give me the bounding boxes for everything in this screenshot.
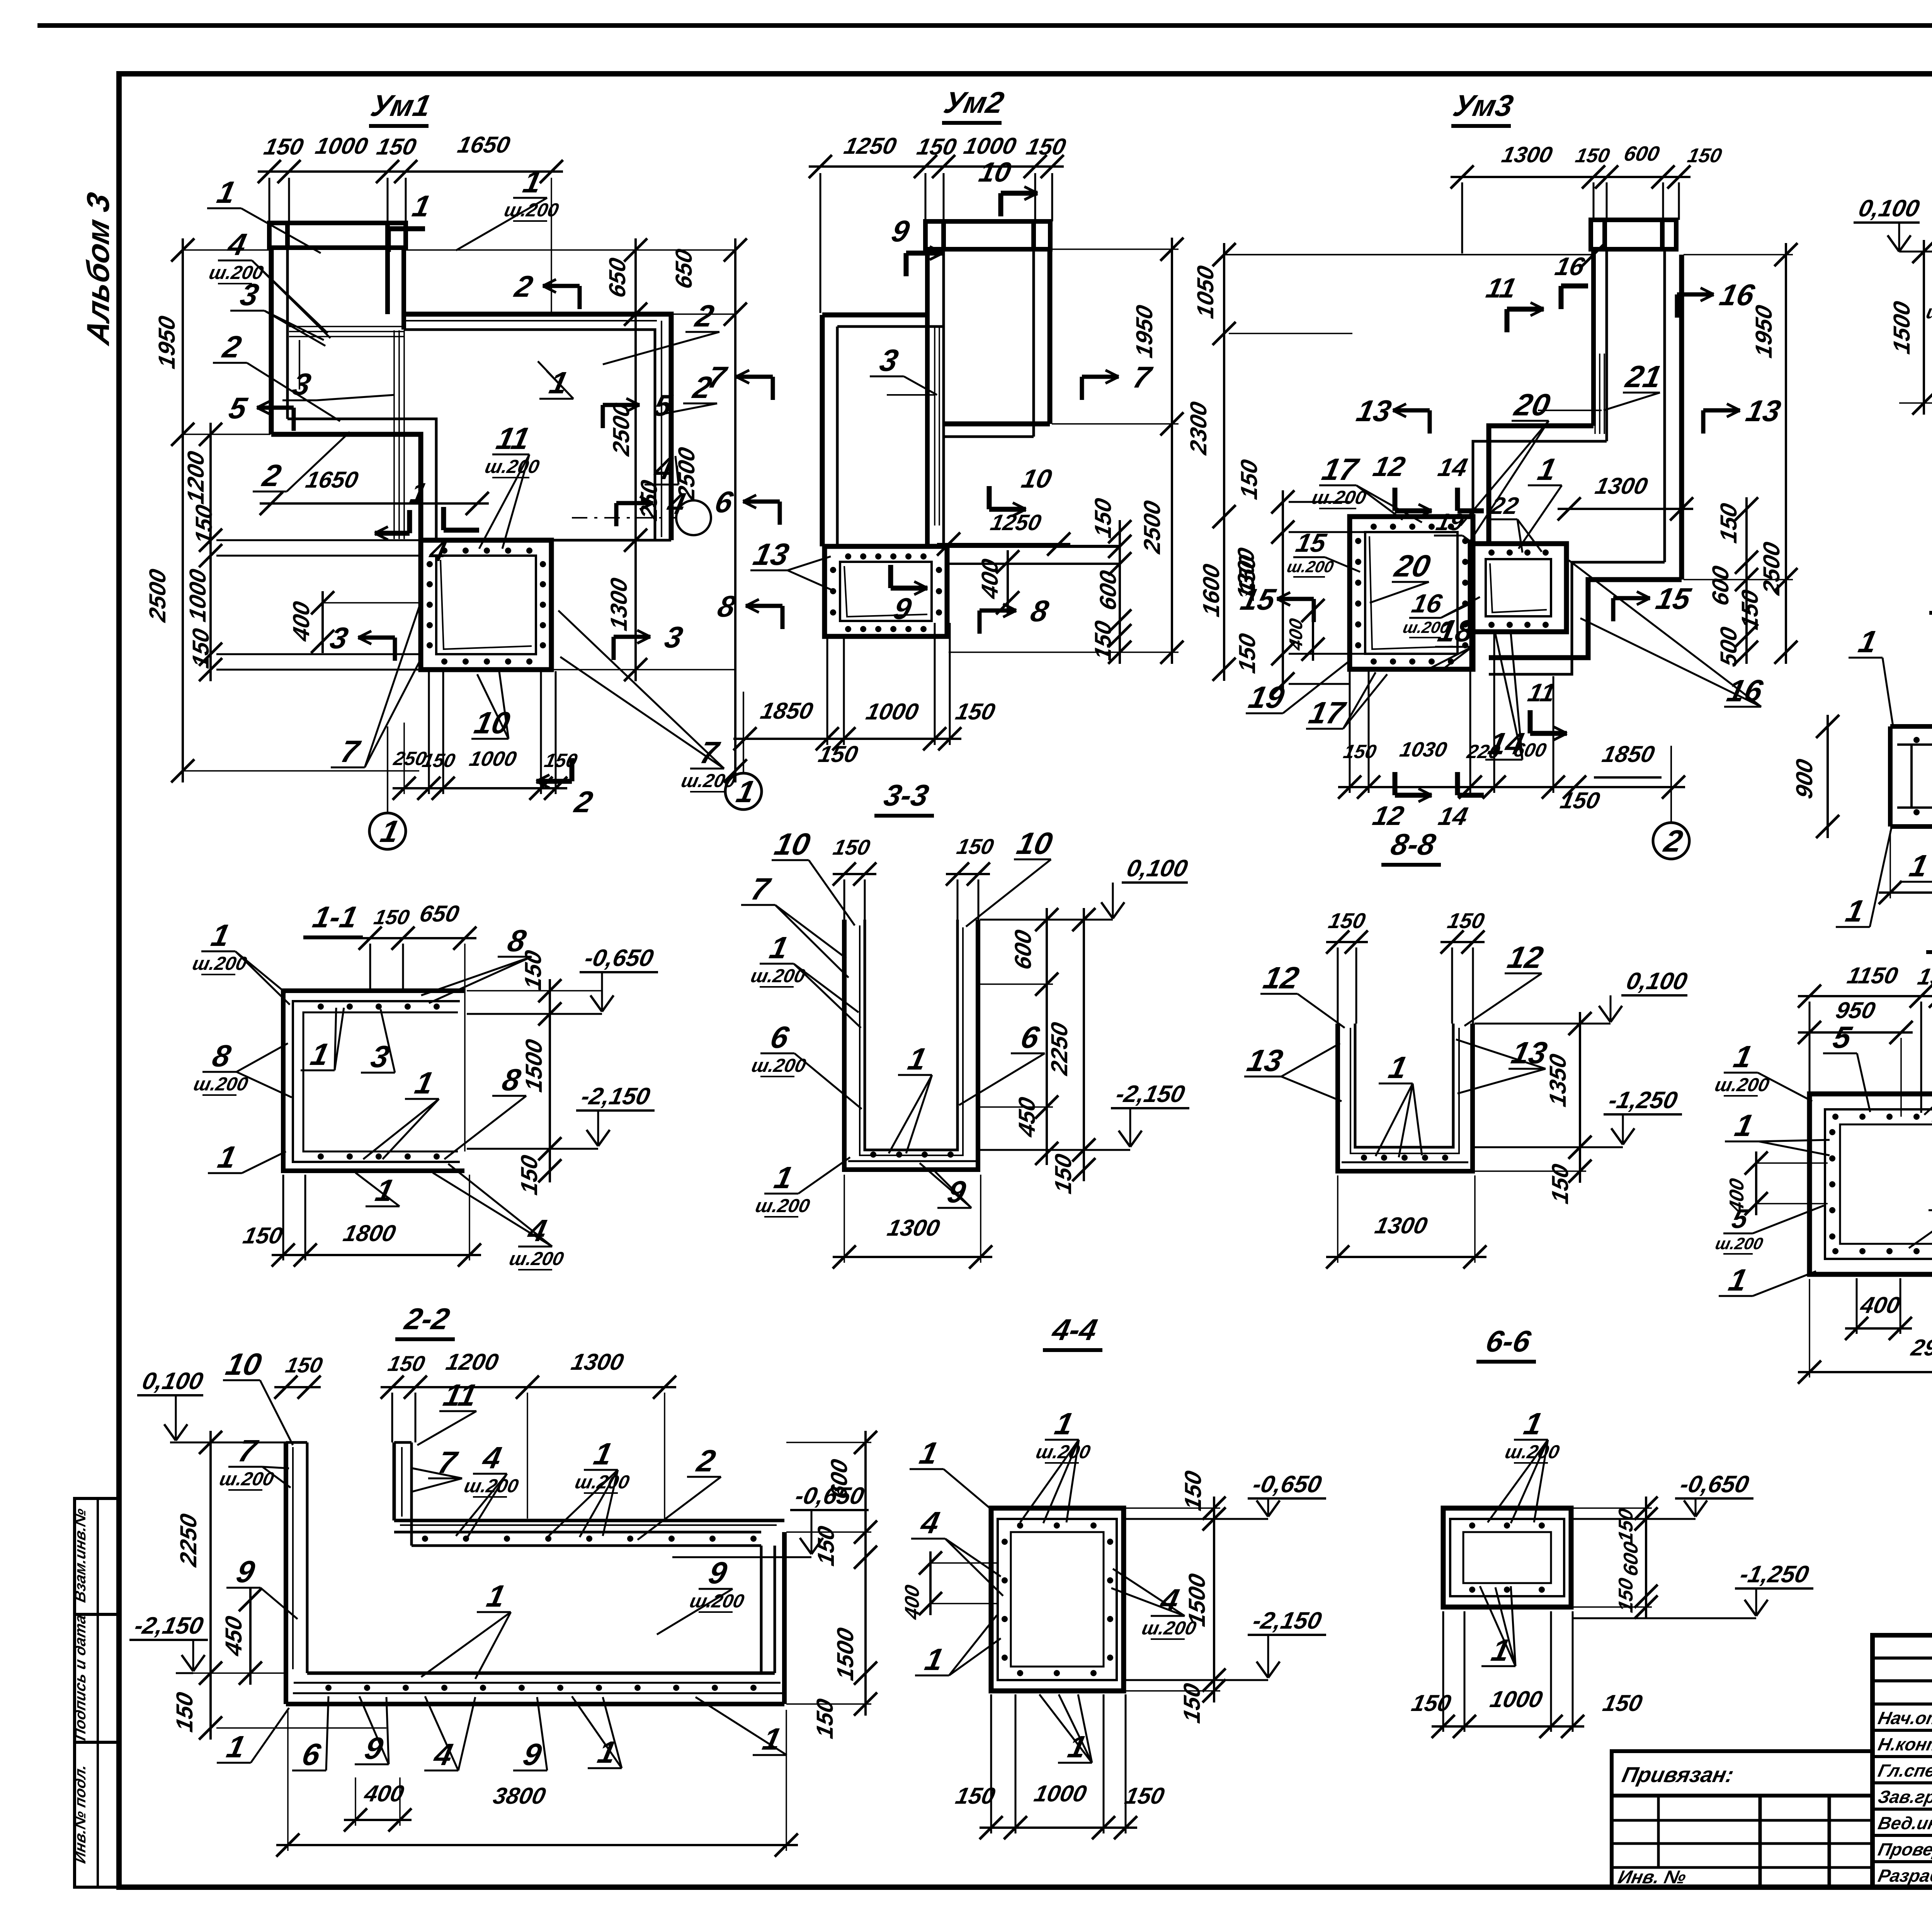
svg-text:650: 650: [671, 247, 697, 291]
plan Ум1 top opening right wall: [385, 248, 390, 314]
plan Ум2 step wall left: [822, 313, 927, 318]
plan Ум1 right wall rebar line: [405, 320, 657, 321]
plan Ум2 section mark 8 mid: [978, 611, 982, 634]
svg-text:Ум3: Ум3: [1450, 89, 1516, 122]
svg-text:-1,250: -1,250: [1606, 1087, 1680, 1114]
svg-text:1500: 1500: [1184, 1571, 1210, 1628]
svg-text:ш.200: ш.200: [218, 1468, 276, 1489]
svg-text:1000: 1000: [313, 133, 371, 159]
svg-text:150: 150: [420, 750, 457, 771]
plan Ум1 pit outer wall: [421, 540, 551, 670]
svg-text:-0,650: -0,650: [582, 945, 656, 971]
plan Ум1 top collar walls: [269, 223, 406, 248]
svg-text:ш.200: ш.200: [192, 1073, 250, 1094]
plan Ум3 pit A inner wall: [1365, 532, 1458, 654]
svg-text:650: 650: [604, 255, 630, 300]
plan Ум1 section mark 4 right: [614, 503, 619, 526]
section 10-10 slab outline: [1890, 724, 1932, 729]
plan Ум2 section mark 10 top: [998, 193, 1003, 216]
svg-text:150: 150: [812, 1696, 838, 1741]
plan Ум3 axis circle 2: [1653, 823, 1689, 859]
plan Ум2 section mark 7 left: [771, 377, 775, 400]
section 2-2 bottom slab: [307, 1672, 775, 1675]
svg-text:8-8: 8-8: [1388, 828, 1439, 861]
svg-text:2500: 2500: [145, 566, 170, 624]
plan Ум3 pit A outer wall: [1350, 517, 1473, 669]
svg-text:150: 150: [284, 1353, 325, 1377]
svg-text:150: 150: [374, 134, 419, 160]
svg-text:150: 150: [1547, 1162, 1573, 1206]
svg-text:0,100: 0,100: [1624, 968, 1690, 995]
plan Ум3 section mark 14 lower: [1455, 772, 1460, 795]
plan Ум3 section mark 11 lower: [1528, 710, 1533, 733]
svg-text:1000: 1000: [962, 133, 1019, 159]
section 1-1 channel outline: [283, 991, 464, 1171]
svg-text:150: 150: [520, 948, 546, 992]
plan Ум1 rebar lines vertical: [393, 330, 395, 539]
svg-text:-0,650: -0,650: [1250, 1471, 1324, 1498]
svg-text:Разраб.: Разраб.: [1876, 1866, 1932, 1885]
svg-text:13: 13: [1354, 394, 1394, 428]
svg-text:Взам.инв.№: Взам.инв.№: [71, 1507, 88, 1604]
svg-text:950: 950: [1833, 997, 1878, 1023]
svg-text:-2,150: -2,150: [579, 1083, 653, 1110]
svg-text:150: 150: [1180, 1468, 1206, 1513]
plan Ум2 section mark 9 lower: [888, 565, 893, 588]
plan Ум2 left wall: [820, 315, 825, 546]
svg-text:1000: 1000: [1488, 1686, 1545, 1712]
svg-text:150: 150: [1179, 1681, 1205, 1725]
svg-text:12: 12: [1371, 451, 1408, 482]
svg-text:150: 150: [1236, 457, 1262, 502]
plan Ум2 section mark 9 upper: [904, 253, 909, 276]
svg-text:ш.200: ш.200: [753, 1195, 812, 1216]
section 5-5 rebar dots: [1832, 1114, 1838, 1120]
svg-text:1300: 1300: [606, 575, 632, 633]
svg-text:150: 150: [1342, 741, 1378, 762]
svg-text:ш.200: ш.200: [462, 1475, 520, 1496]
svg-text:400: 400: [288, 599, 314, 644]
plan Ум1 step wall to pit: [271, 434, 421, 540]
svg-text:0,100: 0,100: [140, 1368, 206, 1395]
svg-text:-2,150: -2,150: [1114, 1081, 1187, 1107]
svg-text:2300: 2300: [1185, 399, 1211, 457]
svg-text:13: 13: [1244, 1044, 1286, 1078]
svg-text:1030: 1030: [1398, 738, 1449, 761]
section 6-6 pit walls outline: [1443, 1508, 1571, 1607]
plan Ум3 step wall to pit B: [1489, 426, 1594, 544]
svg-text:1950: 1950: [1751, 303, 1777, 360]
svg-text:ш.200: ш.200: [573, 1471, 631, 1492]
svg-text:ш.200: ш.200: [502, 199, 561, 220]
plan Ум3 section mark 14 upper: [1455, 488, 1460, 511]
svg-text:1250: 1250: [842, 133, 899, 159]
plan Ум1 rebar lines horizontal: [289, 326, 404, 327]
section 2-2 upper right slab: [394, 1519, 784, 1522]
svg-text:1600: 1600: [1198, 561, 1224, 619]
plan Ум1 left wall: [269, 248, 274, 434]
svg-text:10: 10: [976, 157, 1014, 188]
plan Ум2 axis circle 1: [725, 773, 762, 810]
section 8-8 channel outline: [1338, 1024, 1473, 1171]
svg-text:-0,650: -0,650: [793, 1483, 867, 1509]
svg-text:1250: 1250: [988, 510, 1044, 535]
svg-text:Альбом 3: Альбом 3: [80, 189, 116, 348]
svg-text:1300: 1300: [1593, 473, 1650, 499]
svg-text:150: 150: [1327, 909, 1368, 933]
svg-text:1000: 1000: [1032, 1781, 1089, 1806]
svg-text:ш.200: ш.200: [688, 1590, 746, 1612]
svg-text:10: 10: [223, 1347, 265, 1382]
plan Ум1 axis line with circle: [572, 517, 675, 519]
svg-text:1350: 1350: [1545, 1051, 1571, 1109]
sheet outer edge top line: [37, 23, 1932, 28]
svg-text:1850: 1850: [759, 698, 816, 724]
plan Ум3 section mark 13 left: [1428, 410, 1432, 434]
svg-text:150: 150: [1409, 1690, 1454, 1716]
svg-text:1000: 1000: [864, 699, 921, 724]
svg-text:1850: 1850: [1600, 741, 1657, 767]
svg-text:1150: 1150: [1845, 963, 1901, 988]
plan Ум2 pit rebar dots: [845, 553, 851, 560]
section 2-2 left wall: [284, 1442, 288, 1704]
svg-text:2250: 2250: [175, 1511, 201, 1569]
svg-text:150: 150: [1615, 1507, 1637, 1545]
svg-text:12: 12: [1260, 961, 1302, 995]
svg-text:10: 10: [772, 827, 813, 862]
svg-text:Подпись и дата: Подпись и дата: [71, 1613, 88, 1742]
svg-text:ш.200: ш.200: [1034, 1441, 1092, 1462]
svg-text:13: 13: [1743, 394, 1784, 428]
svg-text:0,100: 0,100: [1856, 195, 1922, 222]
svg-text:150: 150: [1090, 618, 1116, 663]
plan Ум3 lower step wall right: [1489, 580, 1682, 658]
plan Ум3 pit B rebar dots: [1488, 549, 1495, 556]
svg-text:Зав.гр.: Зав.гр.: [1876, 1787, 1932, 1806]
svg-text:2500: 2500: [1139, 498, 1165, 556]
svg-text:13: 13: [750, 537, 792, 572]
svg-text:150: 150: [1446, 909, 1487, 933]
svg-text:10: 10: [1014, 827, 1056, 861]
plan Ум3 section mark 16 top: [1559, 286, 1564, 309]
svg-text:ш.200: ш.200: [750, 1054, 808, 1076]
svg-text:150: 150: [1122, 1783, 1167, 1809]
svg-text:400: 400: [977, 556, 1003, 601]
plan Ум2 room bottom wall: [944, 422, 1050, 427]
svg-text:1200: 1200: [444, 1349, 501, 1375]
svg-text:1300: 1300: [569, 1349, 626, 1375]
svg-text:150: 150: [191, 502, 217, 547]
svg-text:150: 150: [1600, 1690, 1645, 1716]
plan Ум3 section mark 11 top: [1505, 309, 1510, 332]
svg-text:18: 18: [1435, 614, 1477, 648]
svg-text:Инв.№ подл.: Инв.№ подл.: [71, 1763, 88, 1865]
plan Ум3 section mark 12 upper: [1393, 488, 1398, 511]
plan Ум1 section mark 1 bottom: [407, 510, 412, 533]
svg-text:1950: 1950: [1131, 303, 1157, 360]
section 4-4 pit walls outline: [991, 1508, 1124, 1691]
svg-text:150: 150: [1685, 145, 1724, 167]
plan Ум3 top collar walls: [1591, 220, 1676, 249]
svg-text:ш.200: ш.200: [1714, 1235, 1765, 1253]
svg-text:14: 14: [1436, 803, 1470, 831]
svg-text:-2,150: -2,150: [1250, 1607, 1324, 1634]
svg-text:600: 600: [1622, 142, 1662, 165]
svg-text:1500: 1500: [832, 1625, 858, 1682]
binding box Привязан: [1612, 1751, 1872, 1887]
svg-text:1000: 1000: [185, 566, 211, 624]
plan Ум2 section mark 8 left: [781, 606, 785, 629]
svg-text:150: 150: [1716, 501, 1742, 545]
svg-text:6-6: 6-6: [1483, 1325, 1534, 1358]
svg-text:150: 150: [955, 835, 996, 859]
plan Ум3 section mark 15 right: [1611, 598, 1616, 621]
plan Ум3 section mark 15 left: [1312, 599, 1316, 622]
svg-text:14: 14: [1435, 454, 1470, 482]
svg-text:150: 150: [953, 699, 998, 724]
plan Ум3 section mark 12 lower: [1393, 772, 1398, 795]
plan Ум2 rebar lines vertical: [934, 327, 935, 526]
svg-text:ш.200: ш.200: [483, 456, 541, 477]
svg-text:600: 600: [1010, 927, 1036, 972]
svg-text:600: 600: [1708, 563, 1733, 608]
svg-text:1800: 1800: [341, 1220, 398, 1246]
left margin stamp boxes: [75, 1498, 119, 1887]
svg-text:1650: 1650: [456, 132, 513, 158]
plan Ум3 top left boundary line: [1224, 254, 1594, 255]
svg-text:2500: 2500: [1759, 539, 1784, 597]
svg-text:Ум2: Ум2: [941, 86, 1007, 119]
plan Ум2 center wall pair: [925, 249, 930, 546]
title block signature rows: [1872, 1729, 1932, 1732]
svg-text:Ум1: Ум1: [368, 89, 434, 122]
svg-text:Нач.отд: Нач.отд: [1876, 1708, 1932, 1728]
svg-text:900: 900: [1791, 757, 1817, 801]
svg-text:1200: 1200: [183, 449, 209, 506]
svg-text:1300: 1300: [1500, 143, 1555, 167]
plan Ум3 pit B outer wall: [1470, 544, 1566, 632]
plan Ум2 right wall pair: [1032, 249, 1035, 437]
plan Ум1 right wall: [404, 314, 671, 540]
plan Ум1 section mark 5 right: [601, 405, 605, 428]
svg-text:150: 150: [1615, 1576, 1637, 1614]
svg-text:150: 150: [172, 1690, 197, 1734]
section 3-3 channel outline: [844, 920, 978, 1170]
section 6-6 rebar dots: [1469, 1522, 1475, 1529]
plan Ум2 section mark 6 left: [778, 502, 782, 525]
plan Ум1 axis circle 1: [369, 813, 406, 849]
svg-text:650: 650: [417, 901, 462, 927]
svg-text:ш.200: ш.200: [190, 952, 249, 974]
svg-text:Привязан:: Привязан:: [1620, 1763, 1736, 1787]
plan Ум2 section mark 10 mid: [987, 486, 992, 509]
svg-text:1300: 1300: [885, 1215, 942, 1241]
plan Ум2 section mark 7 right: [1080, 377, 1084, 400]
svg-text:ш.200: ш.200: [749, 965, 807, 986]
svg-text:150: 150: [1234, 631, 1260, 675]
plan Ум1 section mark 2 top right: [578, 286, 582, 309]
svg-text:Н.контр.: Н.контр.: [1876, 1734, 1932, 1754]
svg-text:400: 400: [901, 1583, 923, 1622]
svg-text:2250: 2250: [1046, 1020, 1072, 1077]
title block outline: [1872, 1635, 1932, 1887]
plan Ум3 section mark 16 right: [1675, 294, 1679, 318]
svg-text:1950: 1950: [154, 313, 180, 371]
plan Ум3 rebar lines vertical: [1594, 354, 1596, 434]
svg-text:ш.200: ш.200: [1713, 1074, 1771, 1095]
svg-text:150: 150: [1050, 1151, 1076, 1196]
svg-text:-1,250: -1,250: [1738, 1561, 1811, 1588]
svg-text:1500: 1500: [1889, 299, 1915, 356]
section 2-2 right wall: [760, 1546, 763, 1673]
section 2-2 upper right short wall: [393, 1442, 396, 1520]
svg-text:ш.200: ш.200: [1310, 486, 1368, 508]
svg-text:1000: 1000: [467, 747, 519, 770]
svg-text:150: 150: [1090, 496, 1116, 540]
svg-text:150: 150: [1573, 145, 1612, 167]
plan Ум1 pit rebar dots: [441, 548, 447, 554]
svg-text:150: 150: [831, 835, 872, 859]
svg-text:Провер.: Провер.: [1876, 1839, 1932, 1859]
plan Ум3 upper right wall pair: [1663, 249, 1666, 562]
section 5-5 slab outline: [1810, 1094, 1932, 1274]
svg-text:ш.200: ш.200: [507, 1248, 566, 1269]
svg-text:600: 600: [1620, 1540, 1642, 1578]
svg-text:150: 150: [241, 1223, 285, 1248]
svg-text:1500: 1500: [521, 1037, 547, 1094]
plan Ум2 top collar walls: [925, 221, 1050, 249]
svg-text:13: 13: [1509, 1036, 1550, 1070]
svg-text:Вед.ин.: Вед.ин.: [1876, 1813, 1932, 1833]
svg-text:12: 12: [1505, 940, 1546, 975]
section 4-4 rebar dots: [1002, 1539, 1008, 1545]
svg-text:ш.200: ш.200: [1286, 558, 1335, 575]
svg-text:ш.200: ш.200: [1503, 1441, 1561, 1462]
svg-text:1-1: 1-1: [310, 900, 361, 934]
plan Ум2 pit outer wall: [825, 546, 947, 636]
plan Ум1 section mark 2 bottom: [570, 758, 575, 781]
plan Ум3 upper left wall pair: [1591, 249, 1596, 426]
svg-text:4-4: 4-4: [1049, 1313, 1100, 1347]
svg-text:150: 150: [262, 134, 306, 160]
svg-text:1650: 1650: [304, 467, 361, 493]
svg-text:10: 10: [1019, 464, 1054, 493]
plan Ум1 section mark 1 top: [386, 229, 391, 252]
plan Ум1 pit inner wall: [436, 556, 536, 654]
svg-text:400: 400: [1858, 1292, 1903, 1318]
svg-text:150: 150: [1558, 787, 1602, 813]
svg-text:2-2: 2-2: [401, 1302, 452, 1336]
svg-text:3-3: 3-3: [881, 779, 932, 812]
plan Ум1 section mark 3 pit right: [612, 637, 616, 660]
plan Ум3 section mark 13 right: [1701, 410, 1706, 434]
title block top narrow rows: [1872, 1656, 1932, 1660]
plan Ум1 section mark 5 left: [292, 408, 296, 431]
svg-text:19: 19: [1246, 680, 1287, 715]
svg-text:0,100: 0,100: [1124, 855, 1190, 882]
plan Ум1 section mark 3 pit left: [393, 638, 397, 661]
svg-text:12: 12: [1370, 801, 1406, 831]
svg-text:150: 150: [386, 1352, 427, 1376]
plan Ум2 lower wall lines right: [947, 545, 1120, 548]
svg-text:22: 22: [1488, 493, 1521, 519]
svg-text:Гл.спец.: Гл.спец.: [1876, 1760, 1932, 1780]
svg-text:-0,650: -0,650: [1678, 1471, 1752, 1498]
plan Ум1 section mark 4 bottom: [441, 507, 446, 530]
svg-text:3800: 3800: [491, 1783, 548, 1809]
svg-text:1300: 1300: [1373, 1213, 1430, 1238]
svg-text:Инв. №: Инв. №: [1616, 1867, 1688, 1887]
plan Ум3 pit B inner wall: [1486, 559, 1551, 616]
svg-text:-2,150: -2,150: [132, 1612, 206, 1639]
svg-text:450: 450: [221, 1614, 247, 1658]
plan Ум2 pit inner wall: [840, 562, 932, 621]
svg-text:150: 150: [372, 906, 412, 929]
plan Ум3 pit A rebar dots: [1371, 524, 1377, 530]
svg-text:1050: 1050: [1192, 263, 1218, 320]
